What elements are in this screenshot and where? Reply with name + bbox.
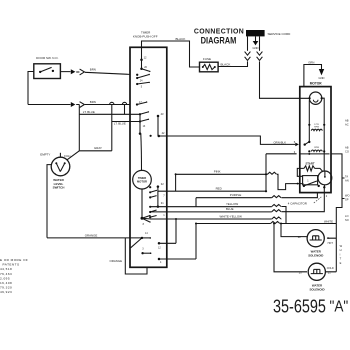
svg-text:RPM: RPM	[314, 147, 319, 149]
wire LT. BLUE row 1	[79, 113, 140, 115]
svg-text:31: 31	[161, 201, 164, 205]
connector chevrons feed row	[271, 221, 280, 223]
wire service cord right lead	[259, 36, 261, 50]
svg-text:RED: RED	[216, 186, 222, 190]
wire right lead down to motor	[260, 61, 310, 98]
svg-text:4 CAPACITOR: 4 CAPACITOR	[288, 201, 307, 205]
wire timer to fuse (BLACK)	[142, 41, 200, 67]
wire water level left down to orange	[47, 165, 52, 238]
svg-text:ORANGE: ORANGE	[110, 259, 123, 263]
wire white vertical to solenoid right terminals	[326, 224, 336, 272]
svg-text:12: 12	[158, 246, 161, 249]
timer terminal 42	[158, 135, 161, 138]
crossover hop 2 on BRN lower	[122, 102, 126, 104]
pink junction dot at motor	[297, 183, 299, 185]
svg-text:LT. BLUE: LT. BLUE	[114, 121, 126, 125]
timer contact 12	[140, 47, 150, 72]
svg-text:76,463: 76,463	[0, 272, 12, 276]
svg-text:42: 42	[162, 131, 165, 135]
timer bottom terminal 4	[158, 258, 161, 261]
svg-text:14: 14	[145, 232, 148, 235]
svg-text:I: I	[340, 252, 341, 256]
wire YELLOW	[150, 207, 286, 224]
wire BRN upper (door sw to timer)	[60, 72, 130, 75]
wire pink riser	[175, 174, 177, 191]
right edge text fragments	[345, 119, 349, 222]
timer motor TM	[133, 170, 152, 189]
timer wiper junction	[141, 217, 144, 220]
patent note text block	[0, 258, 28, 294]
svg-text:TIMER: TIMER	[138, 176, 146, 180]
tick between EMPTY and FULL	[59, 153, 61, 157]
svg-text:BRN: BRN	[90, 67, 96, 71]
svg-text:T: T	[340, 257, 342, 261]
svg-text:LT. BLUE: LT. BLUE	[83, 110, 95, 114]
water level switch PS1	[51, 157, 70, 176]
wire ORANGE row	[47, 238, 142, 248]
connector chevron upper BRN	[80, 69, 85, 75]
wire 42 to motor ORN-BLK	[159, 136, 295, 144]
connector chevron lower BRN	[80, 102, 85, 108]
node junction x266 vertical	[265, 154, 267, 192]
wire drop at x124	[124, 105, 126, 115]
svg-text:8: 8	[143, 223, 145, 226]
wire PINK	[176, 174, 304, 189]
svg-text:GND: GND	[319, 76, 325, 80]
svg-text:7: 7	[163, 194, 165, 198]
svg-text:START: START	[305, 162, 314, 166]
ground arrow GND (motor)	[319, 69, 324, 75]
connector chevrons blue	[272, 210, 281, 212]
svg-text:LO: LO	[345, 214, 348, 218]
wire RED	[158, 190, 266, 192]
svg-text:YELLOW: YELLOW	[226, 202, 238, 206]
crossover hop 1 on BRN lower	[110, 102, 114, 104]
title CONNECTION DIAGRAM	[194, 28, 244, 45]
timer contact 17 (BRN lower feed)	[136, 101, 147, 106]
svg-text:AC: AC	[345, 123, 349, 127]
wire motor left vertical	[308, 100, 310, 142]
right edge strip ticks	[342, 178, 345, 199]
connector chevrons yellow	[272, 204, 281, 206]
water solenoid hot L1	[307, 230, 324, 247]
wire motor ground GRN	[304, 65, 322, 87]
svg-text:22: 22	[298, 235, 301, 239]
wire whyel riser from timer 12b	[159, 219, 176, 243]
svg-text:24: 24	[140, 79, 143, 82]
wire door switch left down	[28, 72, 34, 105]
motor speed blade	[305, 142, 310, 145]
svg-text:CO: CO	[345, 149, 349, 153]
timer bottom terminal 12b	[158, 242, 161, 245]
svg-text:H: H	[340, 248, 342, 252]
wire solenoid1 feed	[281, 224, 307, 237]
connector chevrons white-yellow	[272, 217, 281, 219]
fuse F1	[200, 57, 219, 72]
wire motor bottom row	[300, 153, 330, 155]
svg-text:PATENTS: PATENTS	[3, 263, 20, 267]
wire LT. BLUE row 2	[112, 121, 140, 123]
timer box	[130, 47, 167, 267]
timer terminal 43	[157, 115, 160, 118]
connector chevrons purple	[272, 196, 281, 198]
svg-text:BLACK: BLACK	[176, 37, 186, 41]
timer bottom contact 3	[141, 248, 151, 255]
svg-text:49,923: 49,923	[0, 290, 12, 294]
svg-text:12: 12	[144, 56, 147, 60]
wire PURPLE	[196, 193, 317, 198]
wire WHITE-YELLOW	[150, 218, 281, 220]
svg-text:E: E	[340, 261, 342, 265]
wire service cord left lead	[247, 36, 249, 50]
motor start winding	[304, 166, 315, 171]
timer bottom contact 14	[141, 232, 151, 239]
motor box M1	[300, 87, 331, 193]
motor overload box	[303, 176, 318, 185]
svg-text:DIAGRAM: DIAGRAM	[201, 34, 237, 45]
connector chevrons left lead	[245, 52, 251, 61]
svg-text:SERVICE CORD: SERVICE CORD	[268, 32, 292, 36]
motor terminal 2	[323, 186, 325, 188]
svg-text:32: 32	[161, 182, 164, 186]
svg-text:W: W	[340, 244, 343, 248]
svg-text:FUSE: FUSE	[203, 57, 211, 61]
svg-text:3: 3	[142, 248, 144, 251]
capacitor leader dashed	[314, 197, 322, 203]
wire motor right vertical	[322, 98, 325, 171]
svg-text:HOT: HOT	[328, 242, 334, 245]
svg-text:SWITCH: SWITCH	[53, 186, 65, 190]
motor start contacts	[303, 185, 305, 187]
svg-text:E OR MORE OF: E OR MORE OF	[0, 258, 28, 262]
svg-text:1: 1	[163, 213, 165, 217]
wire orange branch down loop	[125, 238, 147, 274]
svg-text:4: 4	[160, 261, 162, 264]
svg-text:2: 2	[326, 194, 328, 198]
svg-text:ORANGE: ORANGE	[85, 234, 98, 238]
wire to motor terminal 3	[266, 153, 297, 155]
svg-text:AB: AB	[345, 145, 349, 149]
svg-text:KNOB-PUSH OFF: KNOB-PUSH OFF	[133, 35, 158, 39]
water solenoid cold L2	[308, 263, 325, 280]
svg-text:PURPLE: PURPLE	[230, 193, 242, 197]
wire BRN lower	[28, 104, 130, 106]
svg-text:"A": "A"	[330, 299, 349, 316]
svg-text:5: 5	[141, 85, 143, 88]
svg-text:79,320: 79,320	[0, 286, 12, 290]
ground arrow GND (service cord)	[253, 36, 259, 49]
wire BLUE	[150, 187, 324, 212]
svg-text:BRN: BRN	[90, 100, 96, 104]
svg-text:ORN-BLK: ORN-BLK	[274, 140, 287, 144]
connector arrow into motor 5	[295, 143, 299, 147]
connector arrow lower BRN	[71, 102, 76, 107]
svg-text:GRN: GRN	[308, 60, 314, 64]
svg-text:SO: SO	[345, 218, 349, 222]
svg-text:WHITE-YELLOW: WHITE-YELLOW	[220, 214, 243, 218]
wire timer motor lead up	[140, 134, 143, 171]
svg-text:DOOR SW. N.O.: DOOR SW. N.O.	[36, 56, 59, 60]
wire timer motor lead down	[141, 189, 143, 218]
wire lower feed row	[159, 224, 336, 260]
wire 43 to 42	[157, 116, 159, 136]
svg-text:SOLENOID: SOLENOID	[308, 253, 323, 257]
wire GRAY row	[79, 150, 112, 152]
svg-text:26: 26	[144, 66, 147, 69]
svg-text:1: 1	[307, 180, 309, 183]
wire left lead to fuse	[218, 61, 248, 66]
motor thermal protector	[309, 92, 323, 104]
connector arrow upper BRN	[71, 69, 76, 74]
svg-text:AN: AN	[345, 178, 349, 182]
wire drop at x112	[111, 105, 113, 151]
wire PURPLE riser	[195, 198, 197, 207]
svg-text:GRAY: GRAY	[94, 146, 102, 150]
timer contact on 42 row	[150, 135, 152, 137]
svg-text:BLACK: BLACK	[221, 63, 231, 67]
svg-text:RPM: RPM	[314, 126, 319, 128]
timer contacts 32 7 31 1	[149, 182, 165, 218]
wire drop at x79 to LT.BLUE row	[78, 105, 80, 151]
svg-text:43: 43	[161, 112, 164, 116]
svg-text:2,095: 2,095	[0, 276, 10, 280]
connector chevrons right lead	[257, 52, 263, 61]
part number 35-6595 "A"	[273, 296, 348, 317]
svg-text:GND: GND	[253, 46, 259, 50]
svg-text:AB: AB	[345, 119, 349, 123]
svg-text:SP: SP	[345, 198, 349, 202]
svg-text:WHITE: WHITE	[324, 220, 333, 224]
connector chevrons pink	[267, 172, 276, 174]
svg-text:13: 13	[143, 125, 146, 128]
svg-text:COLD: COLD	[327, 267, 334, 270]
service cord plug	[246, 30, 265, 36]
svg-text:16,408: 16,408	[0, 281, 12, 285]
svg-text:3: 3	[294, 150, 296, 154]
motor centrifugal switch	[318, 171, 332, 185]
wire start winding hook	[297, 168, 322, 176]
wiper blades	[142, 216, 150, 222]
wire motor bottom row to right edge strip	[331, 154, 342, 224]
door switch S1	[34, 64, 61, 79]
svg-text:SOLENOID: SOLENOID	[309, 287, 324, 291]
svg-text:35-6595: 35-6595	[273, 296, 326, 317]
motor main winding 1725 RPM	[311, 124, 322, 131]
svg-text:MOTOR: MOTOR	[137, 179, 147, 183]
svg-text:44,518: 44,518	[0, 267, 12, 271]
svg-text:WO: WO	[345, 194, 349, 198]
svg-text:PINK: PINK	[214, 169, 221, 173]
svg-text:TA: TA	[345, 174, 348, 178]
wire water level FULL to gray corner	[67, 151, 79, 160]
wire solenoid2 feed	[274, 224, 307, 272]
timer contacts LT.BLUE cluster	[139, 111, 149, 135]
svg-text:EMPTY: EMPTY	[40, 152, 50, 156]
svg-text:BLUE: BLUE	[226, 207, 234, 211]
timer contact 24 (BRN feed)	[136, 74, 150, 89]
svg-text:MOTOR: MOTOR	[310, 82, 323, 86]
motor winding 2 RPM	[308, 147, 322, 152]
